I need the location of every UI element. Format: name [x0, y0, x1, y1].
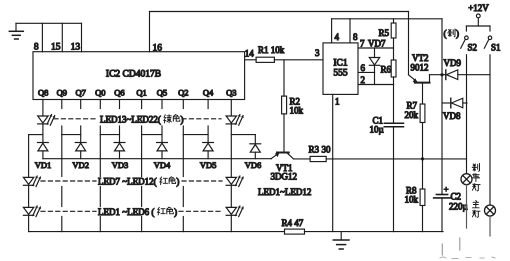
- wire pair bar Q1-Q5: [142, 134, 162, 136]
- wire Q0 column stub: [99, 100, 101, 109]
- junction dot VD column / VD9 wire: [440, 73, 443, 76]
- wire Q1 column lower: [141, 126, 143, 135]
- svg-text:1: 1: [335, 97, 340, 107]
- svg-text:4: 4: [335, 32, 340, 42]
- capacitor C1 10u: [370, 116, 404, 135]
- svg-text:S1: S1: [491, 43, 501, 53]
- pin 1 of IC1 wire to bus: [333, 94, 340, 231]
- wire Q9 column stub: [61, 100, 63, 109]
- wire VD4 to anode bus: [161, 151, 163, 159]
- IC2 CD4017B: [33, 52, 245, 100]
- svg-text:Q0: Q0: [95, 88, 105, 98]
- svg-text:10k: 10k: [290, 106, 304, 116]
- svg-text:7: 7: [360, 39, 365, 49]
- wire Q2 column lower: [182, 126, 184, 135]
- ground (top-left): [9, 23, 23, 39]
- IC1 555: [323, 43, 358, 95]
- wire R7 to node: [422, 123, 424, 159]
- wire Q8 to left bus: [29, 134, 43, 136]
- svg-text:C2: C2: [451, 192, 462, 202]
- resistor R4 47 (inline in bus): [282, 218, 305, 234]
- svg-text:6: 6: [361, 63, 366, 73]
- svg-text:LED1~LED12: LED1~LED12: [258, 187, 311, 197]
- wire Q8 column below LED: [42, 124, 44, 143]
- svg-text:Q5: Q5: [157, 88, 167, 98]
- wire Q3 column: [230, 100, 232, 117]
- hanzi: row A 红色: [160, 177, 168, 184]
- hanzi: row B 红色: [158, 207, 166, 214]
- wire S2 column down to brake lamp: [466, 55, 468, 174]
- diode VD1: [38, 143, 49, 151]
- svg-text:VD8: VD8: [443, 111, 461, 121]
- resistor R8 10k: [405, 186, 425, 206]
- pin 15 of IC2: [51, 23, 62, 52]
- diode VD3: [114, 143, 125, 151]
- svg-text:): ): [174, 207, 177, 217]
- wire VD7 column pin6 to pin2: [374, 72, 376, 84]
- svg-text:14: 14: [245, 49, 255, 59]
- svg-text:Q8: Q8: [38, 88, 48, 98]
- pin 4 of IC1: [332, 19, 340, 43]
- svg-text:Q2: Q2: [178, 88, 188, 98]
- wire VD column (rail B down to C2): [441, 19, 443, 195]
- svg-text:): ): [456, 29, 459, 39]
- wire VD1 to anode bus: [42, 151, 44, 159]
- pin 7 wire: [358, 39, 394, 49]
- wire VD6 column: [254, 135, 256, 144]
- svg-text:LED13~LED22(: LED13~LED22(: [100, 114, 161, 124]
- pin 13 of IC2: [71, 23, 82, 52]
- dashed row LED1-6 red: [41, 210, 222, 212]
- wire VD5 to anode bus: [207, 151, 209, 159]
- svg-text:Q9: Q9: [57, 88, 67, 98]
- hanzi: (sha) brake label: [448, 29, 455, 37]
- wire Q2 column through red rows to bottom bus: [182, 135, 184, 177]
- diode VD9 (pointing left): [444, 58, 491, 80]
- wire R3 to node: [326, 158, 422, 160]
- pin 2 wire: [358, 75, 394, 85]
- LED13 (green, on Q8 column): [38, 115, 56, 126]
- wire ground to pins 8,15,13: [16, 22, 82, 24]
- diode VD6: [250, 144, 261, 152]
- ground (bottom, at IC1 pin1 bus): [333, 232, 349, 249]
- diode VD5: [203, 143, 214, 151]
- wire R8 to bottom bus: [422, 206, 424, 232]
- transistor VT2 9012: [409, 12, 430, 83]
- svg-text:Q4: Q4: [203, 88, 214, 98]
- wire Q3 column to bottom bus: [230, 215, 232, 231]
- wire rail B (IC1 power to VD column): [332, 18, 442, 20]
- LED1 (red, left bus): [23, 206, 41, 217]
- wire Q6 column stub: [119, 100, 121, 109]
- svg-text:Q1: Q1: [136, 88, 146, 98]
- wire R2 column from R1 node: [283, 60, 285, 96]
- +12V supply terminal: [466, 3, 490, 26]
- wire Q0 column through red rows to bottom bus: [99, 135, 101, 177]
- diode VD4: [157, 143, 168, 151]
- svg-text:): ): [181, 114, 184, 124]
- wire R1 to pin 3 of IC1: [274, 59, 323, 61]
- svg-text:10µ: 10µ: [370, 125, 384, 135]
- switch S1 (main): [484, 26, 500, 53]
- svg-text:R6: R6: [381, 65, 392, 75]
- LED anode bus (diode bottoms to VT1 emitter): [43, 158, 272, 160]
- wire Q1 column through red rows to bottom bus: [141, 135, 143, 177]
- wire +V rail A (pin16 to VT2 emitter): [150, 11, 409, 13]
- diode VD7 (down): [368, 39, 386, 73]
- wire VT2 collector to R7: [422, 83, 424, 104]
- diode VD8 (pointing left): [442, 98, 467, 121]
- dashed row LED7-12 red: [41, 180, 222, 182]
- svg-text:Q3: Q3: [226, 88, 236, 98]
- wire VD2 to anode bus: [80, 151, 82, 159]
- faint watermark squiggles: [440, 257, 495, 259]
- wire pair bar Q9-Q7: [62, 134, 81, 136]
- svg-text:IC2 CD4017B: IC2 CD4017B: [106, 70, 161, 80]
- svg-text:30: 30: [322, 144, 332, 154]
- wire pair bar Q3-VD6: [231, 134, 255, 136]
- svg-text:3: 3: [315, 48, 320, 58]
- svg-text:+: +: [444, 184, 449, 194]
- LED6 (red, on Q3 column): [226, 206, 244, 217]
- wire Q3 column between red LEDs: [230, 185, 232, 207]
- wire VD3 to anode bus: [119, 151, 121, 159]
- svg-text:R1 10k: R1 10k: [258, 45, 285, 55]
- lamp brake light: [461, 174, 472, 185]
- svg-text:VD2: VD2: [72, 160, 89, 170]
- svg-text:20k: 20k: [405, 110, 419, 120]
- LED22 (green, on Q3 column): [226, 115, 244, 126]
- svg-text:3DG12: 3DG12: [271, 172, 298, 182]
- wire R6 column down to C1: [393, 85, 395, 124]
- wire Q6 column lower: [119, 126, 121, 143]
- LED7 (red, left bus): [23, 176, 41, 187]
- faint C2 column remnant: [441, 244, 443, 255]
- wire S1 column down to main lamp: [489, 55, 491, 205]
- diode VD2: [75, 143, 86, 151]
- wire node to brake lamp column: [423, 158, 467, 160]
- svg-text:VD6: VD6: [245, 160, 262, 170]
- svg-text:S2: S2: [468, 43, 478, 53]
- svg-text:VT2: VT2: [412, 53, 429, 63]
- wire Q7 column lower: [80, 126, 82, 143]
- wire Q0 column lower: [99, 126, 101, 135]
- wire Q2 column stub: [182, 100, 184, 109]
- pin 6 wire: [358, 63, 375, 73]
- svg-text:VD5: VD5: [200, 160, 217, 170]
- svg-text:R5: R5: [379, 28, 390, 38]
- node dot R3/R7/R8: [421, 157, 424, 160]
- pin 16 of IC2: [150, 12, 163, 54]
- wire Q7 column stub: [80, 100, 82, 109]
- resistor R3 30: [309, 144, 332, 161]
- wire Q9 column through red rows to bottom bus: [61, 135, 63, 177]
- wire below main lamp: [489, 216, 491, 236]
- svg-text:2: 2: [361, 75, 366, 85]
- resistor R1 10k: [256, 45, 285, 63]
- svg-text:R3: R3: [309, 144, 320, 154]
- svg-text:+12V: +12V: [468, 3, 489, 13]
- svg-text:IC1: IC1: [333, 59, 348, 69]
- resistor R5: [379, 19, 397, 48]
- switch S2 (brake): [461, 26, 477, 53]
- hanzi: green label 绿色: [164, 115, 171, 123]
- wire Q4 column lower: [207, 126, 209, 143]
- wire R2 to VT1 collector: [283, 114, 285, 152]
- svg-text:Q6: Q6: [114, 88, 124, 98]
- hanzi: brake lamp label 刹车灯 (vertical): [472, 164, 479, 172]
- LED12 (red, on Q3 column): [226, 176, 244, 187]
- resistor R7 20k: [405, 101, 425, 123]
- left bus vertical with red LEDs: [28, 135, 30, 178]
- wire below brake lamp: [466, 185, 468, 228]
- wire C1 to bottom bus: [393, 127, 395, 232]
- svg-text:R7: R7: [407, 101, 418, 111]
- resistor R2 10k: [282, 96, 304, 115]
- hanzi: main lamp label 主灯 (vertical): [473, 201, 479, 208]
- pin 14 of IC2 wire to R1: [245, 59, 257, 61]
- svg-text:R4 47: R4 47: [282, 218, 304, 228]
- lamp main light: [485, 205, 496, 216]
- wire node to R8: [422, 159, 424, 189]
- svg-text:VD3: VD3: [112, 160, 129, 170]
- resistor R6: [381, 48, 397, 85]
- svg-text:): ): [176, 176, 179, 186]
- capacitor C2 220u (electrolytic): [434, 184, 468, 232]
- dashed row green LEDs: [54, 118, 221, 120]
- wire Q9 column lower: [61, 126, 63, 135]
- svg-text:VD4: VD4: [154, 160, 171, 170]
- wire Q5 column stub: [161, 100, 163, 109]
- wire pair bar Q2-Q4: [183, 134, 208, 136]
- pin 8 of IC1: [350, 19, 358, 43]
- wire Q8 column: [42, 100, 44, 117]
- svg-text:LED7 ~LED12(: LED7 ~LED12(: [98, 176, 157, 186]
- bottom common bus: [29, 231, 285, 233]
- svg-text:VD1: VD1: [35, 160, 52, 170]
- wire Q5 column lower: [161, 126, 163, 143]
- wire VT1 to R3: [294, 158, 311, 160]
- svg-text:8: 8: [353, 32, 358, 42]
- svg-text:220µ: 220µ: [449, 202, 468, 212]
- svg-text:Q7: Q7: [76, 88, 86, 98]
- svg-text:9012: 9012: [411, 63, 429, 73]
- svg-text:LED1 ~LED6 (: LED1 ~LED6 (: [98, 207, 154, 217]
- svg-text:VD9: VD9: [444, 58, 462, 68]
- pin 8 of IC2: [34, 23, 43, 52]
- wire VD6 to anode bus: [254, 152, 256, 159]
- svg-text:10k: 10k: [405, 195, 419, 205]
- wire Q3 column below LED down through red rows: [230, 124, 232, 177]
- wire pair bar Q0-Q6: [100, 134, 119, 136]
- transistor VT1 3DG12: [271, 153, 298, 182]
- wire Q1 column stub: [141, 100, 143, 109]
- svg-text:(: (: [444, 29, 447, 39]
- svg-text:555: 555: [333, 69, 348, 79]
- svg-text:VD7: VD7: [368, 39, 386, 49]
- wire VT2 base to VD9: [430, 74, 446, 76]
- wire Q4 column stub: [207, 100, 209, 109]
